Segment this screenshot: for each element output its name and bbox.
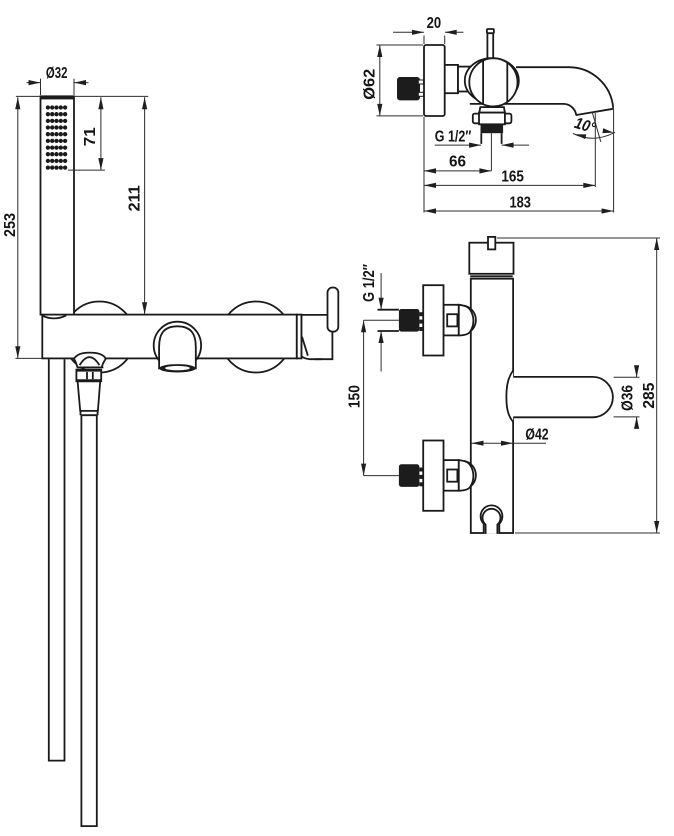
- svg-text:Ø62: Ø62: [362, 69, 379, 100]
- svg-text:G 1/2″: G 1/2″: [361, 264, 378, 302]
- svg-text:G 1/2″: G 1/2″: [435, 129, 472, 146]
- svg-text:211: 211: [126, 185, 143, 212]
- svg-text:71: 71: [82, 127, 99, 146]
- svg-text:Ø36: Ø36: [620, 385, 637, 411]
- svg-text:253: 253: [2, 213, 19, 237]
- svg-text:66: 66: [449, 154, 466, 171]
- svg-text:183: 183: [509, 195, 531, 212]
- svg-text:150: 150: [346, 385, 363, 408]
- svg-text:165: 165: [501, 169, 524, 186]
- svg-text:Ø42: Ø42: [525, 426, 548, 443]
- svg-text:285: 285: [641, 383, 658, 409]
- svg-text:20: 20: [427, 15, 442, 32]
- svg-text:Ø32: Ø32: [46, 65, 68, 82]
